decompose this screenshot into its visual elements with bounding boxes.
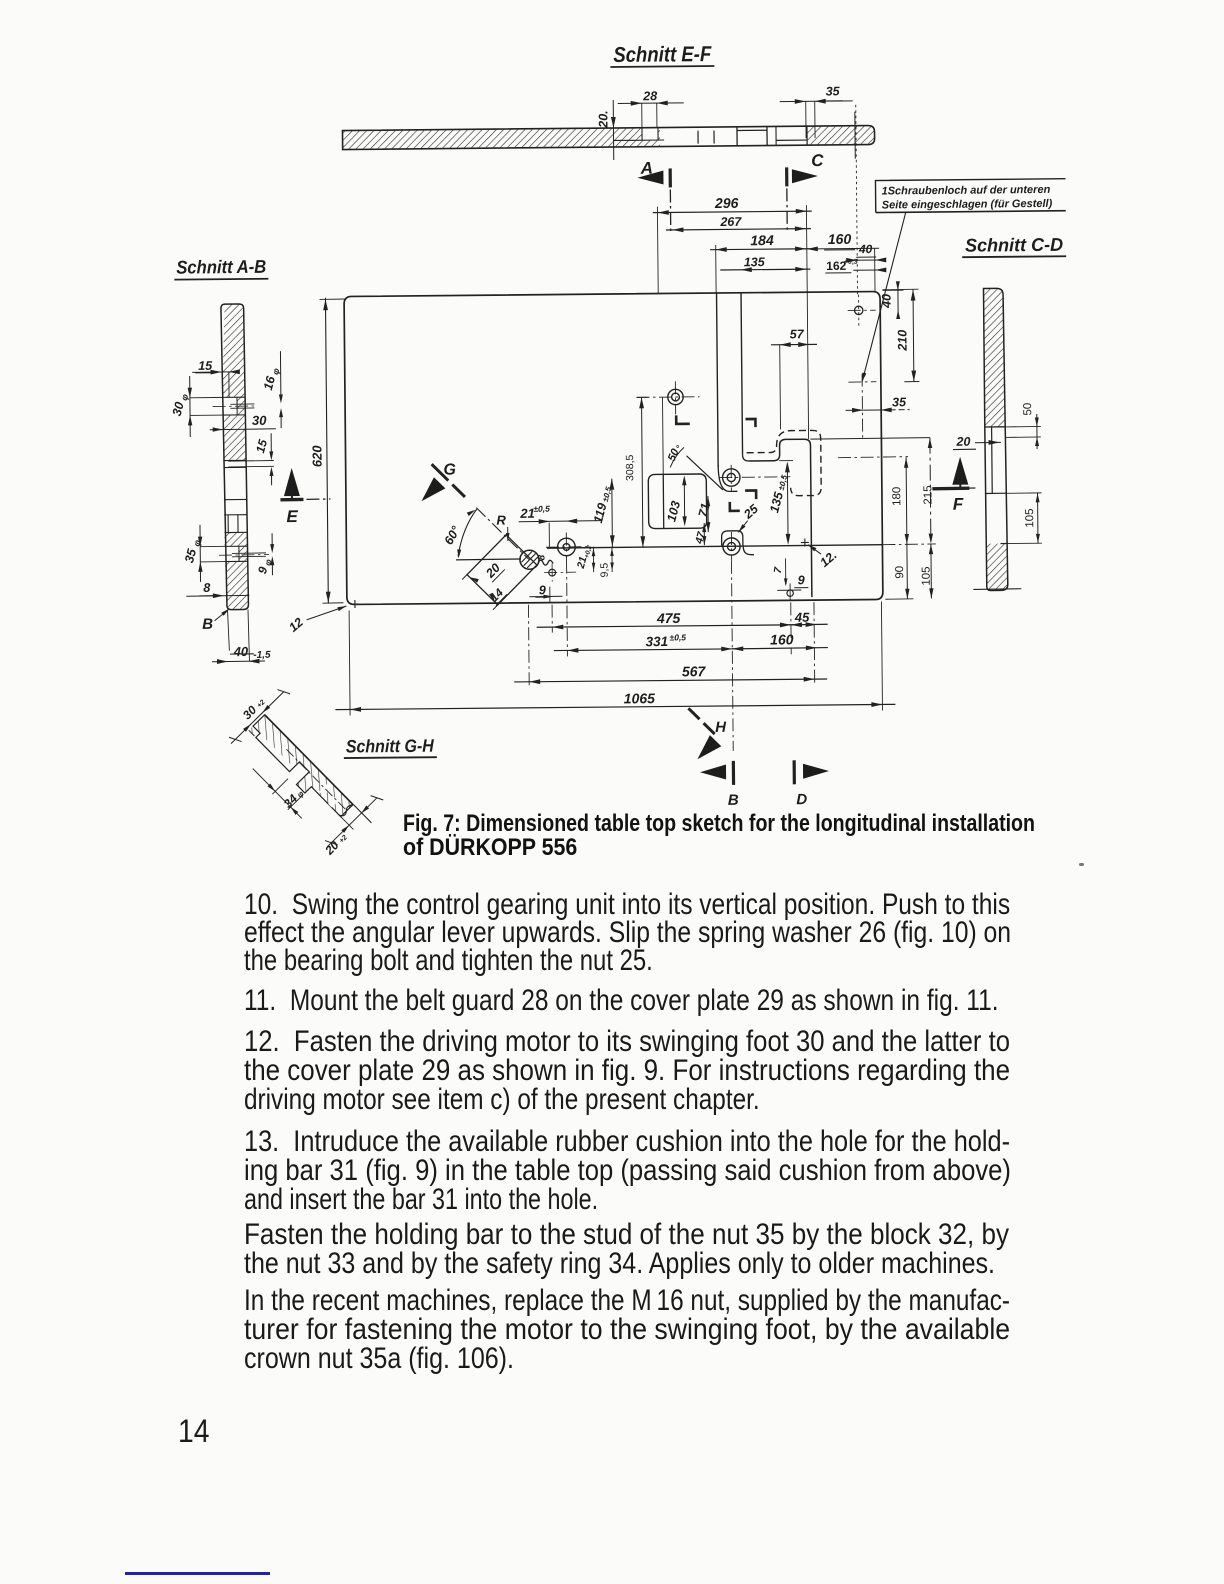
A-B hatch block above 35phi: [224, 532, 247, 546]
section arrow D bottom: [803, 763, 829, 778]
svg-text:567: 567: [682, 663, 707, 679]
svg-text:8: 8: [203, 581, 210, 595]
svg-text:50: 50: [1022, 403, 1034, 416]
step contour extension line: [810, 438, 929, 440]
svg-text:45: 45: [794, 610, 810, 625]
A-B notch 15: [223, 459, 246, 461]
svg-text:308,5: 308,5: [624, 454, 636, 481]
plan mid horizontal line: [547, 545, 882, 548]
svg-text:30: 30: [252, 413, 267, 428]
A-B white middle with box: [224, 498, 247, 500]
svg-text:D: D: [796, 791, 807, 808]
E-F bar hatched left portion: [342, 128, 660, 150]
svg-text:57: 57: [790, 327, 805, 341]
svg-text:9,5: 9,5: [599, 563, 611, 578]
A-B hatch mid block: [223, 415, 246, 461]
table-top cross-section bar E-F outline: [342, 126, 874, 150]
section arrow B bottom: [700, 764, 726, 779]
hole E1 (left of center): [558, 538, 576, 556]
A-B hatch top block: [222, 304, 246, 397]
svg-text:9: 9: [798, 573, 805, 587]
A-B notch 30phi: [222, 396, 245, 398]
svg-text:105: 105: [1024, 508, 1036, 527]
svg-text:C: C: [811, 151, 824, 170]
slot bottom pocket: [718, 465, 737, 492]
section arrow F: [952, 457, 968, 485]
svg-text:20: 20: [483, 561, 503, 581]
hole C2 (lower center): [723, 538, 740, 555]
svg-text:180: 180: [891, 487, 903, 506]
page number: [178, 1417, 209, 1447]
corner mark L below hole D1: [676, 415, 690, 424]
rotated slot rectangle: [462, 535, 537, 610]
svg-text:40: 40: [858, 242, 873, 256]
E-F bar step notch lines: [641, 128, 643, 140]
corner mark mid-right: [745, 490, 756, 499]
svg-text:E: E: [286, 507, 298, 526]
svg-text:25: 25: [740, 501, 761, 522]
svg-text:35: 35: [892, 395, 907, 409]
screw hole axis dotted line: [856, 105, 858, 295]
note leader line: [861, 212, 908, 381]
slot rect dim ticks: [462, 575, 467, 580]
E-F bar hatched right portion: [807, 126, 875, 146]
svg-text:103: 103: [664, 500, 683, 524]
svg-text:F: F: [953, 495, 964, 514]
svg-text:1065: 1065: [624, 690, 656, 706]
svg-text:15: 15: [253, 438, 270, 455]
mid line right extension: [882, 543, 935, 546]
corner mark top-right: [746, 419, 756, 427]
bottom extension dash-dot lines: [527, 605, 530, 689]
svg-text:331: 331: [645, 634, 668, 649]
svg-text:7: 7: [772, 565, 785, 574]
G-H diagonal section: [223, 685, 395, 858]
dash-dot line y459.6: [838, 457, 908, 458]
C-D bottom centerline: [973, 588, 1021, 591]
technical drawing figure 7: [0, 0, 1224, 900]
svg-text:H: H: [715, 719, 727, 736]
svg-text:135: 135: [744, 255, 766, 269]
svg-text:35: 35: [182, 546, 199, 564]
svg-text:119: 119: [591, 502, 610, 525]
bottom blue line: [125, 1572, 270, 1575]
svg-text:+2: +2: [256, 699, 267, 710]
svg-text:Schnitt C-D: Schnitt C-D: [965, 234, 1063, 256]
C-D section bar outline: [983, 288, 1007, 590]
svg-text:Schnitt A-B: Schnitt A-B: [176, 256, 266, 278]
svg-text:Schnitt E-F: Schnitt E-F: [613, 42, 712, 67]
60 deg dash-dot diagonal: [476, 507, 529, 560]
dashed cover plate outline: [746, 430, 821, 496]
svg-text:35: 35: [826, 84, 841, 98]
C-D hatched top part: [983, 288, 1005, 427]
note box Schraubenloch: [875, 179, 1065, 213]
belt slot right edge: [741, 293, 743, 455]
hole C1 (upper center): [722, 469, 740, 487]
svg-text:B: B: [202, 616, 213, 633]
corner mark mid-left: [730, 502, 740, 511]
svg-text:40: 40: [880, 294, 894, 309]
reference line x663: [662, 397, 665, 474]
60 deg arc: [458, 509, 478, 557]
small hole E2: [549, 569, 556, 576]
svg-text:φ: φ: [270, 366, 281, 375]
stray dot artifact: [1079, 863, 1084, 866]
E-F bar right pocket: [775, 126, 777, 145]
svg-text:±0,5: ±0,5: [669, 632, 686, 642]
60 deg baseline: [456, 558, 521, 561]
screw hole (for Gestell): [854, 306, 862, 314]
svg-text:±0,5: ±0,5: [533, 504, 550, 514]
A-B notch 35phi: [225, 545, 248, 547]
E-F bar middle tick lines: [697, 131, 699, 144]
svg-text:135: 135: [767, 490, 786, 515]
left rounded slot rect: [648, 474, 707, 529]
svg-text:210: 210: [895, 330, 909, 352]
A-B section bar outline: [221, 304, 249, 610]
body text paragraphs: [244, 890, 1010, 920]
G-H dim 20+2: [327, 798, 377, 847]
left slot inner line: [662, 474, 665, 528]
svg-text:184: 184: [750, 232, 774, 248]
figure caption line 1: [403, 813, 1035, 837]
G-H upper edge extension: [265, 715, 372, 823]
belt slot left edge: [717, 293, 719, 467]
svg-text:296: 296: [714, 195, 739, 211]
svg-text:40: 40: [233, 644, 249, 659]
svg-text:267: 267: [719, 215, 742, 229]
svg-text:8: 8: [536, 554, 547, 560]
svg-text:12.: 12.: [817, 548, 839, 570]
svg-text:-1,5: -1,5: [253, 650, 271, 661]
G-H bar axis dash-dot: [286, 749, 345, 809]
svg-text:16: 16: [261, 374, 278, 392]
C-D hatched bottom part: [987, 543, 1008, 590]
svg-text:Seite eingeschlagen (für Geste: Seite eingeschlagen (für Gestell): [882, 198, 1053, 212]
G-H break squiggle: [339, 803, 354, 817]
squiggle break line: [538, 560, 553, 565]
hole C2 pocket contour: [722, 531, 743, 546]
corner plus mark bottom-left: [351, 603, 359, 605]
E-F bar centerline: [854, 112, 856, 159]
A-B lower extension lines: [227, 610, 229, 651]
svg-text:φ: φ: [179, 392, 190, 401]
screw hole axis cross: [848, 381, 876, 383]
cover plate step contour solid: [748, 439, 811, 598]
svg-text:160: 160: [828, 231, 852, 247]
svg-text:475: 475: [656, 610, 681, 626]
svg-text:20.: 20.: [596, 110, 610, 129]
svg-text:+0,3: +0,3: [844, 259, 858, 266]
small hole F1 bottom: [787, 590, 793, 596]
svg-text:1Schraubenloch auf der unteren: 1Schraubenloch auf der unteren: [882, 184, 1051, 198]
svg-text:28: 28: [642, 89, 657, 103]
section arrow E: [284, 468, 300, 496]
A-B 16phi hole lines: [230, 403, 254, 405]
svg-text:B: B: [728, 792, 739, 809]
table top plan outline: [344, 291, 883, 604]
pocket slant edge (50 deg): [687, 455, 723, 490]
svg-text:160: 160: [770, 631, 794, 647]
svg-text:620: 620: [309, 445, 324, 468]
svg-text:71: 71: [696, 502, 713, 519]
C-D inner step lines: [985, 426, 1005, 428]
figure caption line 2: [403, 837, 577, 861]
svg-text:30: 30: [170, 401, 187, 418]
A-B 9phi hole lines: [232, 552, 266, 555]
corner plus mark right: [801, 541, 809, 543]
E-F bar sub-box: [736, 127, 738, 146]
G-H dim 34phi: [272, 779, 288, 794]
G-H bar white slots in right part: [319, 783, 332, 796]
svg-text:20: 20: [955, 435, 970, 449]
A-B hatch bottom block: [225, 561, 249, 609]
svg-text:Schnitt G-H: Schnitt G-H: [346, 736, 435, 757]
svg-text:90: 90: [894, 566, 906, 579]
svg-text:R: R: [496, 513, 506, 528]
hole D1 top: [668, 389, 684, 405]
screw break-out circle: [520, 550, 539, 569]
svg-text:12: 12: [286, 615, 306, 635]
G-H dim 30+2: [231, 692, 284, 744]
svg-text:+2: +2: [338, 834, 349, 845]
